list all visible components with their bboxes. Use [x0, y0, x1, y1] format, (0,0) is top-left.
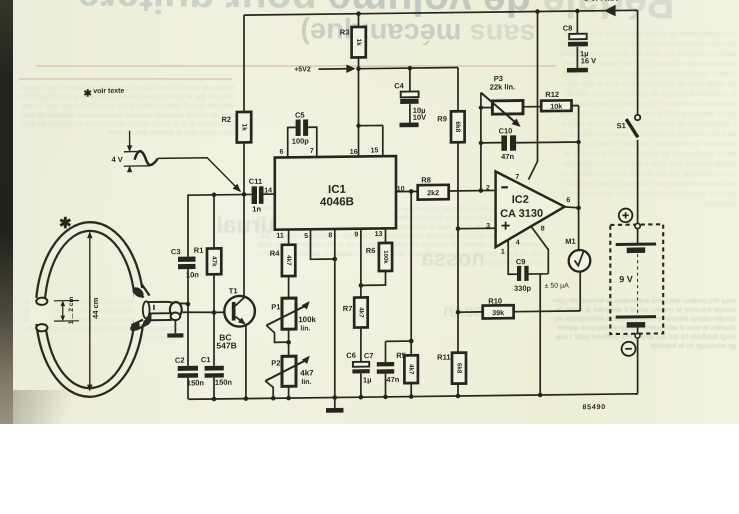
svg-text:M1: M1	[565, 237, 575, 246]
svg-text:47k: 47k	[210, 256, 217, 267]
wire battery right rail	[637, 10, 639, 394]
svg-text:2: 2	[486, 185, 490, 192]
resistor R11 6k8	[452, 353, 466, 384]
svg-text:330p: 330p	[514, 284, 532, 293]
wire pin 8 to ground	[334, 229, 336, 408]
svg-text:8: 8	[328, 232, 332, 239]
resistor R7 4k7	[354, 297, 368, 327]
svg-text:T1: T1	[229, 286, 238, 295]
svg-text:IC2: IC2	[512, 194, 529, 206]
svg-text:16: 16	[350, 149, 358, 156]
svg-text:4: 4	[516, 239, 520, 246]
svg-text:6k8: 6k8	[455, 363, 462, 374]
svg-text:R4: R4	[270, 249, 280, 258]
capacitor C11 1n	[252, 186, 257, 204]
svg-text:C8: C8	[563, 24, 573, 33]
wire C10 leads	[481, 142, 579, 143]
potentiometer P2 4k7	[282, 356, 296, 386]
svg-text:C10: C10	[499, 126, 513, 135]
wire pin 2 pot rail	[480, 93, 482, 191]
wire top supply rail	[244, 10, 638, 15]
wire cable ground	[174, 320, 176, 333]
capacitor C9 330p	[517, 266, 521, 281]
svg-text:14: 14	[264, 187, 272, 194]
RULES	[36, 65, 556, 67]
svg-text:8: 8	[541, 226, 545, 233]
wire C11 line	[187, 194, 274, 195]
capacitor C3 10n	[178, 256, 196, 261]
resistor R10 39k	[483, 305, 514, 318]
svg-text:4 V: 4 V	[112, 155, 123, 164]
resistor R4 4k7	[282, 245, 295, 276]
svg-text:6k8: 6k8	[454, 121, 461, 132]
capacitor C2 150n	[178, 366, 198, 371]
wire R3 rail	[358, 14, 360, 69]
svg-text:150n: 150n	[187, 378, 205, 387]
wire R1 C1 rail	[213, 195, 215, 399]
svg-text:C1: C1	[201, 355, 211, 364]
resistor R3 1k	[352, 27, 366, 58]
svg-text:4k7: 4k7	[408, 364, 415, 375]
op-amp IC2 CA3130	[496, 171, 565, 248]
svg-text:39k: 39k	[492, 308, 504, 317]
capacitor C7 47n	[377, 362, 394, 367]
svg-text:1µ: 1µ	[363, 375, 371, 384]
wire C7 R5 link	[386, 341, 412, 397]
svg-text:voir texte: voir texte	[93, 88, 124, 95]
svg-text:100k: 100k	[382, 250, 388, 264]
svg-text:1k: 1k	[355, 39, 362, 47]
svg-text:C3: C3	[171, 247, 181, 256]
svg-text:✱: ✱	[59, 215, 72, 232]
svg-text:6: 6	[566, 197, 570, 204]
svg-text:lin.: lin.	[300, 325, 310, 332]
HEADLINE	[10, 0, 739, 28]
switch S1	[626, 115, 640, 138]
coil L1 search loop	[31, 221, 188, 398]
svg-text:47n: 47n	[501, 152, 514, 161]
svg-text:1k: 1k	[240, 124, 247, 132]
capacitor C10 47n	[501, 135, 507, 150]
potentiometer P1 100k	[282, 298, 296, 329]
wire R10 line	[458, 311, 580, 313]
svg-text:13: 13	[375, 231, 383, 238]
wire output stub pin 6	[565, 207, 579, 208]
svg-text:R8: R8	[421, 175, 431, 184]
wire bottom ground rail	[188, 394, 637, 399]
svg-text:150n: 150n	[215, 378, 233, 387]
resistor R8 2k2	[418, 185, 449, 200]
svg-text:10n: 10n	[186, 270, 199, 279]
wire C5 bracket pins 6 7	[288, 127, 317, 157]
resistor R1 47k	[207, 248, 221, 274]
svg-text:4046B: 4046B	[320, 196, 354, 208]
dimension 1..2 cm	[54, 300, 79, 321]
svg-text:1 ... 2 cm: 1 ... 2 cm	[68, 297, 75, 325]
capacitor C4 10u electrolytic	[401, 91, 419, 97]
svg-text:22k lin.: 22k lin.	[490, 82, 515, 91]
svg-text:R10: R10	[488, 296, 502, 305]
svg-text:16 V: 16 V	[581, 56, 596, 65]
wire pin 5	[311, 229, 335, 259]
wire C3 C2 rail	[187, 195, 189, 399]
transistor T1 BC547B	[224, 296, 255, 327]
svg-text:± 50 µA: ± 50 µA	[545, 283, 570, 290]
arrow supply top	[604, 5, 616, 17]
svg-text:IC1: IC1	[328, 184, 346, 196]
svg-text:+5V2: +5V2	[294, 66, 311, 73]
wire R12 right to output rail	[572, 106, 579, 208]
resistor R5 4k7	[404, 355, 418, 383]
svg-text:2k2: 2k2	[427, 188, 439, 197]
svg-text:15: 15	[371, 147, 379, 154]
wire C4 hang	[409, 68, 411, 122]
svg-text:4k7: 4k7	[300, 368, 314, 377]
capacitor C5 100p	[296, 120, 301, 136]
wire P3 leads	[481, 107, 541, 108]
svg-text:1n: 1n	[252, 204, 261, 213]
svg-text:C11: C11	[249, 177, 262, 186]
svg-text:4k7: 4k7	[357, 307, 364, 318]
annotation 4V sine and arrow	[124, 129, 241, 193]
resistor R6 100k	[379, 243, 392, 271]
svg-text:P1: P1	[271, 302, 280, 311]
svg-text:7: 7	[515, 174, 519, 181]
arrow +5V2	[346, 64, 355, 73]
svg-text:C5: C5	[295, 111, 305, 120]
svg-text:1: 1	[501, 249, 505, 256]
svg-text:R9: R9	[437, 114, 447, 123]
capacitor C1 150n	[205, 366, 224, 371]
svg-text:9: 9	[354, 232, 358, 239]
wire C8 rail	[576, 11, 578, 68]
svg-text:R6: R6	[366, 246, 376, 255]
svg-text:5: 5	[304, 233, 308, 240]
svg-text:S1: S1	[617, 121, 626, 130]
wire R2 collector rail	[243, 15, 245, 298]
svg-text:4k7: 4k7	[285, 255, 292, 266]
wire pin 7 to supply	[529, 12, 538, 180]
wire pin 9 R7 C6 rail	[360, 229, 362, 398]
svg-text:6: 6	[280, 149, 284, 156]
svg-text:C7: C7	[364, 351, 374, 360]
ground cable shield	[167, 333, 183, 337]
IC1 4046B	[275, 156, 396, 230]
coil lower tube to cable	[132, 320, 149, 330]
battery 9V	[610, 208, 663, 356]
wire pin 10 R8 node rail R5	[396, 190, 496, 396]
resistor R2 1k	[237, 112, 251, 143]
svg-text:47n: 47n	[386, 375, 399, 384]
svg-text:100k: 100k	[298, 315, 316, 324]
wire C9 node down	[539, 274, 541, 395]
svg-text:10: 10	[397, 186, 405, 193]
wire T1 base line	[183, 312, 232, 313]
cable shield cylinder	[147, 302, 189, 318]
svg-text:11: 11	[276, 233, 284, 240]
battery minus terminal	[622, 342, 636, 356]
wire pin 11 R4 P1 P2 rail	[288, 230, 290, 399]
svg-text:100p: 100p	[292, 137, 310, 146]
svg-text:P2: P2	[271, 358, 280, 367]
resistor R9 6k8	[451, 111, 465, 142]
svg-text:10V: 10V	[413, 113, 426, 122]
dimension 44 cm	[87, 231, 92, 391]
potentiometer P3 22k	[492, 100, 523, 114]
capacitor C8 1u electrolytic	[569, 34, 587, 40]
svg-text:C4: C4	[394, 81, 404, 90]
wire +5V2 line	[319, 67, 459, 69]
wire T1 emitter rail	[245, 325, 247, 399]
BLEED	[18, 84, 234, 264]
ground main under pin 8	[326, 408, 344, 413]
wire M1 rails	[579, 208, 581, 311]
svg-text:547B: 547B	[216, 340, 236, 350]
svg-text:lin.: lin.	[301, 379, 311, 386]
capacitor C6 1u electrolytic	[353, 362, 369, 367]
svg-text:R5: R5	[396, 351, 406, 360]
svg-text:R3: R3	[340, 28, 350, 37]
svg-text:85490: 85490	[583, 404, 606, 411]
svg-text:44 cm: 44 cm	[91, 297, 100, 319]
wire C9 bracket pins 1 4 8	[508, 225, 548, 275]
svg-text:3: 3	[486, 223, 490, 230]
svg-text:C6: C6	[346, 351, 356, 360]
ground under C4	[400, 122, 419, 127]
ground under C8	[567, 68, 588, 73]
wire pin 13 R6	[361, 228, 386, 285]
resistor R12 10k	[541, 100, 571, 111]
svg-text:R11: R11	[437, 353, 450, 362]
svg-text:C2: C2	[175, 356, 185, 365]
svg-text:✱: ✱	[84, 89, 93, 100]
meter M1	[569, 250, 591, 272]
battery plus terminal	[619, 208, 633, 222]
svg-text:7: 7	[310, 148, 314, 155]
svg-text:R2: R2	[222, 115, 232, 124]
svg-text:10k: 10k	[550, 102, 562, 111]
svg-text:CA 3130: CA 3130	[500, 208, 543, 221]
svg-text:R7: R7	[343, 304, 353, 313]
svg-text:R1: R1	[194, 246, 204, 255]
svg-text:R12: R12	[545, 90, 559, 99]
cable lower pigtail cylinder	[151, 313, 172, 320]
wire +5V2 to pin16 and pin15	[359, 68, 383, 156]
svg-text:9 V: 9 V	[619, 274, 633, 284]
coil upper tube to cable	[135, 285, 150, 298]
wire R9 rail	[457, 67, 459, 396]
wire pin 3 line	[458, 227, 496, 229]
svg-text:C9: C9	[516, 257, 526, 266]
